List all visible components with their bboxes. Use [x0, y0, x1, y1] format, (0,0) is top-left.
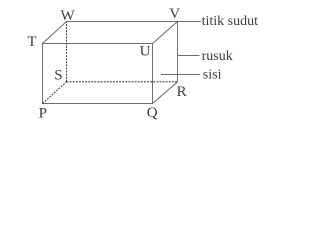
edge WV plus pointer line to titik sudut [67, 21, 202, 23]
edge PT (left front vertical) [42, 43, 44, 104]
svg-text:T: T [27, 34, 36, 50]
svg-text:rusuk: rusuk [202, 49, 233, 64]
edge UV (right top diagonal) [153, 22, 178, 44]
edge TW (left top diagonal) [43, 22, 67, 44]
svg-text:P: P [39, 105, 47, 121]
svg-text:Q: Q [147, 105, 158, 121]
edge TU (top front) [42, 43, 153, 45]
pointer line rusuk [178, 55, 200, 57]
pointer line sisi [161, 74, 200, 76]
dashed edge SR (hidden bottom back) [67, 81, 178, 83]
edge QR (right bottom diagonal) [153, 82, 178, 104]
edge UQ (right front vertical) [152, 43, 154, 104]
dashed edge PS (hidden diagonal) [43, 82, 67, 104]
svg-text:sisi: sisi [203, 68, 222, 83]
svg-text:U: U [140, 44, 151, 60]
svg-text:W: W [61, 8, 76, 24]
edge VR (right back vertical) [177, 22, 179, 83]
svg-text:titik sudut: titik sudut [202, 14, 259, 29]
svg-text:V: V [169, 6, 180, 22]
svg-text:S: S [54, 67, 62, 83]
dashed edge SW (hidden vertical) [66, 22, 68, 82]
edge PQ (bottom front) [42, 103, 153, 105]
svg-text:R: R [177, 84, 187, 100]
